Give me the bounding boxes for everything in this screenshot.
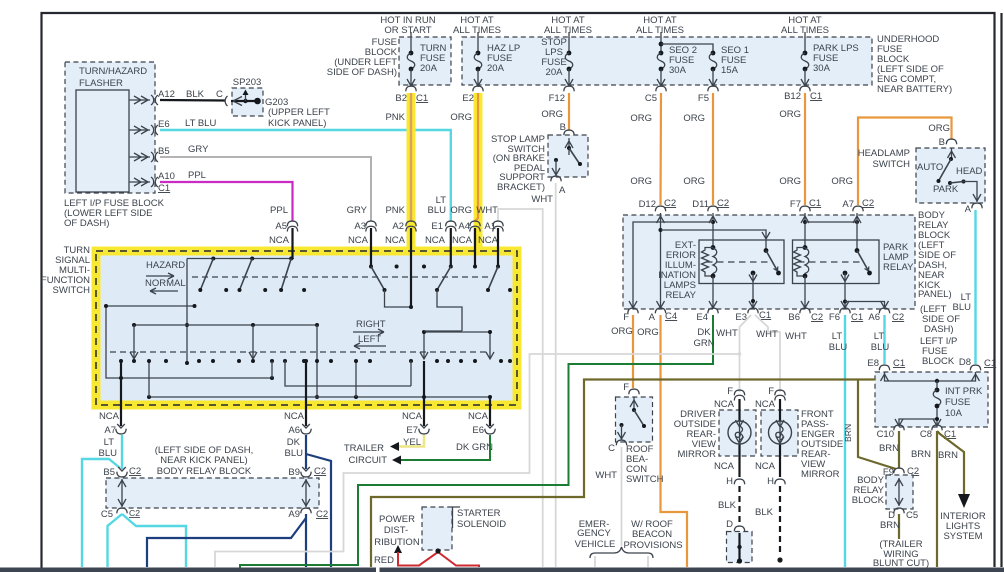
footer bar: [0, 568, 376, 572]
svg-text:E1: E1: [431, 221, 443, 232]
svg-text:NCA: NCA: [714, 399, 735, 410]
svg-text:SIDE OF DASH): SIDE OF DASH): [327, 67, 397, 78]
label TURN SIGNAL MULTI-FUNCTION SWITCH: [41, 245, 90, 296]
switch internals: contact dot row: [119, 359, 512, 363]
svg-text:B: B: [939, 137, 945, 148]
switch internals: right/left labels: [353, 319, 386, 349]
svg-text:C1: C1: [984, 358, 996, 369]
svg-text:HEADLAMP: HEADLAMP: [858, 148, 910, 159]
svg-text:PROVISIONS: PROVISIONS: [623, 540, 682, 551]
flasher inner module: [76, 90, 129, 192]
park lamp relay: [793, 240, 880, 284]
svg-text:20A: 20A: [546, 67, 564, 78]
svg-text:INT PRK: INT PRK: [945, 386, 983, 397]
svg-text:SOLENOID: SOLENOID: [457, 519, 506, 530]
connector A2 NCA: [385, 205, 416, 307]
connector D8 C1: [959, 357, 996, 370]
svg-text:E6: E6: [472, 425, 484, 436]
svg-text:WHT: WHT: [476, 205, 498, 216]
connector H passenger mirror: [755, 461, 785, 487]
connector A3 NCA: [347, 205, 377, 267]
wire DK BLU A9 down: [147, 514, 306, 567]
label HOT AT ALL TIMES (stop lps): [544, 15, 592, 36]
switch exit wire E7: [423, 361, 425, 426]
label FUSE BLOCK (UNDER LEFT SIDE OF DASH): [327, 37, 398, 78]
park lps fuse 30A: [801, 32, 859, 86]
connector A C4: [649, 308, 678, 323]
interior lights system arrow: [940, 494, 986, 542]
svg-text:C10: C10: [877, 429, 894, 440]
svg-text:BEACON: BEACON: [632, 529, 672, 540]
connector B6 C2: [788, 308, 823, 323]
splice SP203 box: [225, 77, 263, 116]
wire LT BLU A6 to E8: [871, 315, 890, 364]
svg-text:SWITCH: SWITCH: [873, 159, 911, 170]
ground G203: [265, 97, 330, 129]
label HOT IN RUN OR START: [380, 15, 435, 36]
svg-text:A: A: [965, 204, 972, 215]
wire LT BLU F6 down to bottom: [829, 315, 848, 567]
svg-text:WHT: WHT: [531, 194, 553, 205]
passenger mirror motor: [769, 399, 792, 477]
svg-text:SP203: SP203: [233, 77, 262, 88]
svg-text:NCA: NCA: [755, 399, 776, 410]
svg-text:B5: B5: [158, 146, 170, 157]
label STOP LAMP SWITCH (ON BRAKE PEDAL SUPPORT BRACKET): [491, 134, 566, 196]
underhood fuse block box: [462, 37, 872, 85]
label LEFT I/P FUSE BLOCK: [920, 336, 957, 367]
connector D driver mirror: [726, 519, 745, 531]
svg-text:NCA: NCA: [348, 235, 369, 246]
connector A headlamp: [965, 203, 983, 215]
svg-text:NCA: NCA: [452, 235, 473, 246]
svg-text:C4: C4: [665, 311, 677, 322]
svg-text:B12: B12: [784, 91, 801, 102]
svg-text:F: F: [768, 386, 774, 397]
svg-text:C1: C1: [810, 91, 822, 102]
flasher pin A12: [129, 89, 175, 105]
svg-text:OF DASH): OF DASH): [64, 218, 109, 229]
svg-text:A5: A5: [275, 221, 287, 232]
wire ORG relay A down to bottom: [637, 315, 687, 567]
wire WHT stop lamp switch A down: [531, 183, 555, 567]
svg-text:A12: A12: [158, 89, 175, 100]
stop lps fuse 20A: [541, 32, 573, 86]
wire BLK A12 to G203: [160, 89, 225, 101]
svg-text:C2: C2: [129, 508, 140, 518]
headlamp switch box: [916, 148, 985, 203]
connector A7 NCA: [99, 411, 127, 459]
svg-text:OR START: OR START: [384, 25, 431, 36]
svg-text:BRN: BRN: [880, 520, 900, 531]
switch internals: lower contact dashed row: [110, 351, 489, 353]
svg-text:E4: E4: [696, 312, 708, 323]
svg-text:DK: DK: [287, 437, 301, 448]
switch internals: link U2: [437, 290, 462, 331]
svg-text:B5: B5: [103, 467, 115, 478]
svg-text:D12: D12: [639, 199, 656, 210]
wire BRN C8 down to bottom: [936, 431, 938, 567]
wire BRN long branch to bottom left: [371, 380, 875, 568]
connector F6 C1: [829, 308, 863, 323]
body relay block (kick panel) box: [106, 478, 319, 508]
svg-text:BLU: BLU: [285, 448, 304, 459]
svg-text:A: A: [559, 185, 566, 196]
wire DK GRN relay E4 to bottom: [240, 315, 715, 568]
connector F (relay block): [623, 308, 638, 323]
wire LT BLU headlamp A to D8: [953, 210, 976, 364]
highlighted wire PNK fuse B2 to A2: [385, 93, 411, 247]
seo 2 fuse 30A: [657, 32, 697, 86]
svg-text:WHT: WHT: [595, 470, 617, 481]
svg-text:FLASHER: FLASHER: [79, 78, 123, 89]
svg-text:A4: A4: [458, 221, 470, 232]
svg-text:SYSTEM: SYSTEM: [943, 531, 982, 542]
label DRIVER OUTSIDE REAR-VIEW MIRROR: [674, 409, 716, 460]
switch internals: right mid frame: [420, 330, 494, 359]
svg-text:C2: C2: [892, 312, 904, 323]
svg-text:BRN: BRN: [879, 443, 899, 454]
driver mirror lower box: [727, 532, 753, 564]
switch internals: bottom cross links: [119, 331, 462, 386]
svg-text:A: A: [649, 312, 656, 323]
fuse block (under left side of dash) box: [399, 37, 451, 85]
turn/hazard flasher box: [65, 62, 155, 193]
svg-text:C5: C5: [906, 510, 918, 521]
flasher pin E6: [129, 119, 170, 135]
svg-text:C5: C5: [101, 509, 113, 520]
svg-text:B2: B2: [395, 93, 407, 104]
svg-text:20A: 20A: [420, 63, 438, 74]
connector E3 C1: [735, 308, 771, 323]
svg-text:E7: E7: [406, 425, 418, 436]
svg-text:C2: C2: [717, 198, 729, 209]
svg-text:WHT: WHT: [785, 331, 807, 342]
wire ORG F5 fuse to D11: [683, 93, 713, 205]
svg-text:DASH): DASH): [924, 324, 954, 335]
svg-text:C1: C1: [893, 358, 905, 369]
connector E1 NCA: [425, 195, 456, 267]
svg-text:ORG: ORG: [630, 113, 652, 124]
label EMER-GENCY VEHICLE: [575, 519, 616, 550]
svg-text:C1: C1: [158, 183, 170, 194]
svg-text:E6: E6: [158, 119, 170, 130]
passenger mirror box: [761, 410, 798, 456]
small body relay block box: [883, 466, 919, 521]
connector A9 C2: [288, 508, 328, 520]
connector F NCA driver mirror: [714, 386, 745, 410]
svg-text:BLK: BLK: [186, 89, 205, 100]
svg-text:RED: RED: [374, 555, 394, 566]
svg-text:NCA: NCA: [99, 411, 120, 422]
svg-text:MIRROR: MIRROR: [677, 449, 716, 460]
starter solenoid box: [422, 507, 506, 550]
svg-text:BLOCK: BLOCK: [852, 495, 885, 506]
svg-text:TRAILER: TRAILER: [344, 443, 384, 454]
svg-text:ORG: ORG: [779, 176, 801, 187]
svg-text:30A: 30A: [813, 63, 831, 74]
svg-text:H: H: [767, 476, 774, 487]
switch internals: hazard feed bus: [187, 257, 294, 261]
switch internals: left riser: [185, 259, 189, 366]
svg-text:NEAR KICK PANEL): NEAR KICK PANEL): [160, 455, 247, 466]
connector C5: [645, 86, 666, 104]
svg-text:SWITCH: SWITCH: [53, 285, 91, 296]
connector E7 NCA: [402, 411, 429, 448]
svg-text:BRACKET): BRACKET): [497, 182, 545, 193]
connector E2: [462, 86, 483, 104]
svg-text:A7: A7: [104, 425, 116, 436]
connector F12: [549, 86, 575, 104]
svg-text:A10: A10: [158, 171, 175, 182]
switch exit wire A7: [120, 361, 122, 426]
switch internals: blade 2: [238, 259, 268, 293]
connector B5 C2: [103, 466, 141, 478]
svg-text:A7: A7: [842, 199, 854, 210]
svg-text:(UPPER LEFT: (UPPER LEFT: [268, 107, 330, 118]
svg-text:LEFT: LEFT: [358, 334, 381, 345]
label HEADLAMP SWITCH: [858, 148, 910, 170]
label POWER DIST-RIBUTION: [374, 514, 420, 548]
svg-text:ORG: ORG: [541, 109, 563, 120]
wire PPL flasher A10 to A5: [160, 170, 293, 221]
svg-text:NCA: NCA: [402, 411, 423, 422]
switch internals: left bus: [104, 304, 197, 378]
exterior illumination lamps relay: [699, 240, 784, 284]
label UNDERHOOD FUSE BLOCK (LEFT SIDE OF ENG COMPT, NEAR BATTERY): [877, 34, 952, 95]
ext illum relay exits: [709, 284, 757, 309]
label FRONT PASS-ENGER OUTSIDE REAR-VIEW MIRROR: [801, 409, 843, 480]
svg-text:NORMAL: NORMAL: [145, 278, 186, 289]
svg-text:ALL TIMES: ALL TIMES: [636, 25, 684, 36]
connector C10: [877, 425, 905, 440]
svg-text:NCA: NCA: [385, 235, 406, 246]
svg-text:20A: 20A: [487, 63, 505, 74]
connector B headlamp: [946, 139, 956, 144]
svg-text:D11: D11: [692, 199, 709, 210]
wire BRN D blunt cut: [873, 514, 929, 569]
wire ORG relay F to roof beacon switch: [611, 315, 633, 388]
connector E8 C1: [867, 358, 905, 370]
svg-text:NCA: NCA: [755, 461, 776, 472]
svg-text:C5: C5: [645, 93, 657, 104]
svg-text:RELAY: RELAY: [666, 290, 697, 301]
svg-text:C2: C2: [664, 198, 676, 209]
svg-text:GRN: GRN: [693, 338, 714, 349]
svg-text:F: F: [623, 312, 629, 323]
svg-text:DK GRN: DK GRN: [456, 442, 493, 453]
svg-text:F7: F7: [790, 199, 801, 210]
roof beacon switch internals: [618, 397, 647, 440]
wire LT BLU C5 branches: [108, 514, 187, 567]
int prk fuse internals: [881, 372, 983, 426]
svg-text:C2: C2: [811, 312, 823, 323]
wire BLK driver mirror dashed: [718, 486, 739, 525]
roof beacon switch box: [616, 397, 653, 442]
svg-text:C8: C8: [920, 429, 932, 440]
svg-text:BLU: BLU: [428, 205, 447, 216]
connector C roof beacon: [608, 440, 627, 454]
svg-text:AUTO: AUTO: [917, 162, 943, 173]
connector E4: [696, 308, 718, 323]
svg-text:LT: LT: [104, 437, 115, 448]
wire BLK passenger mirror dashed: [755, 486, 783, 563]
wire ORG B12 fuse to F7: [779, 93, 805, 205]
connector A6 C2 (relay block): [868, 308, 904, 323]
svg-text:F6: F6: [829, 312, 840, 323]
svg-text:PNK: PNK: [385, 112, 405, 123]
connector H driver mirror: [714, 461, 745, 487]
svg-text:BRN: BRN: [911, 449, 931, 460]
svg-text:BLU: BLU: [871, 342, 890, 353]
svg-text:NCA: NCA: [478, 235, 499, 246]
connector C8 C1: [920, 425, 956, 440]
switch internals: mid drops: [130, 325, 319, 399]
svg-text:ORG: ORG: [928, 123, 950, 134]
label PARK LAMP RELAY: [883, 242, 914, 273]
svg-text:BLU: BLU: [829, 342, 848, 353]
svg-text:PPL: PPL: [270, 205, 288, 216]
svg-text:E8: E8: [867, 358, 879, 369]
wire WHT E3 to passenger mirror: [755, 315, 807, 392]
wire ORG C5 fuse to D12: [630, 93, 661, 205]
label HOT AT ALL TIMES (haz lp): [453, 15, 501, 36]
svg-text:NCA: NCA: [425, 235, 446, 246]
multifunction switch body (yellow highlighted): [96, 251, 517, 405]
svg-text:A9: A9: [288, 509, 300, 520]
brace emergency/roof beacon options: [590, 547, 653, 567]
svg-text:C: C: [216, 89, 223, 100]
flasher pin B5: [129, 146, 170, 162]
wire ORG headlamp switch B to A7: [831, 118, 951, 206]
wire WHT to A1: [498, 209, 543, 567]
svg-text:VEHICLE: VEHICLE: [575, 539, 616, 550]
wire WHT E3 to driver mirror: [716, 315, 751, 392]
svg-text:ORG: ORG: [611, 326, 633, 337]
switch internals: blade 6 (A1 feed): [473, 265, 512, 293]
svg-text:PNK: PNK: [385, 205, 405, 216]
svg-text:ORG: ORG: [637, 327, 659, 338]
svg-text:C2: C2: [314, 466, 326, 477]
svg-text:10A: 10A: [945, 408, 963, 419]
svg-text:RIBUTION: RIBUTION: [374, 537, 420, 548]
svg-text:F: F: [727, 386, 733, 397]
svg-text:DK: DK: [697, 327, 711, 338]
label BODY RELAY BLOCK (small): [852, 475, 885, 506]
svg-text:TURN/HAZARD: TURN/HAZARD: [79, 66, 147, 77]
svg-text:STARTER: STARTER: [457, 508, 501, 519]
svg-text:BRN: BRN: [843, 424, 853, 442]
switch internals: lower bus: [147, 359, 492, 399]
wire WHT roof beacon C down: [595, 447, 621, 546]
haz lp fuse 20A: [474, 32, 520, 86]
svg-text:ALL TIMES: ALL TIMES: [453, 25, 501, 36]
svg-text:RELAY: RELAY: [883, 262, 914, 273]
svg-text:ORG: ORG: [450, 205, 472, 216]
wire GRY flasher B5 to A3: [160, 144, 371, 221]
wire BRN riser to F9: [858, 380, 896, 470]
pass-through arrows in block: [118, 479, 310, 507]
svg-text:ORG: ORG: [683, 176, 705, 187]
label HOT AT ALL TIMES (park lps): [781, 15, 829, 36]
connector F7 C1: [790, 198, 821, 211]
svg-text:30A: 30A: [669, 65, 687, 76]
svg-text:B6: B6: [788, 312, 800, 323]
connector F roof beacon: [623, 382, 639, 394]
svg-text:LT: LT: [874, 331, 885, 342]
svg-text:C: C: [608, 443, 615, 454]
label ROOF BEA-CON SWITCH: [626, 444, 664, 485]
headlamp switch internals: [917, 148, 983, 202]
body relay block box: [623, 215, 915, 309]
switch exit wire E6: [489, 397, 491, 426]
connector A4 NCA: [450, 205, 480, 267]
svg-text:BLU: BLU: [953, 302, 972, 313]
svg-text:C2: C2: [862, 198, 874, 209]
adjacent page edge line: [1000, 13, 1002, 567]
svg-text:MIRROR: MIRROR: [801, 469, 840, 480]
label (LEFT SIDE OF DASH, NEAR KICK PANEL) BODY RELAY BLOCK: [155, 445, 254, 477]
svg-text:F12: F12: [549, 93, 565, 104]
connector B12 C1: [784, 86, 822, 102]
label EXT-ERIOR ILLUM-INATION LAMPS RELAY: [658, 240, 696, 301]
switch exit wire A6: [305, 361, 307, 426]
svg-text:DIST-: DIST-: [384, 525, 408, 536]
svg-text:BODY RELAY BLOCK: BODY RELAY BLOCK: [157, 466, 252, 477]
switch internals: blade 3: [279, 259, 306, 293]
connector A6 NCA: [284, 411, 311, 459]
svg-text:NEAR BATTERY): NEAR BATTERY): [877, 84, 952, 95]
svg-text:POWER: POWER: [379, 514, 415, 525]
svg-text:GRY: GRY: [188, 144, 209, 155]
seo 1 fuse 15A: [659, 42, 749, 86]
svg-text:CIRCUIT: CIRCUIT: [348, 455, 387, 466]
wire BRN C10 to F9: [879, 431, 899, 468]
svg-text:C1: C1: [809, 198, 821, 209]
wire LT BLU flasher E6 to E1: [160, 118, 451, 221]
label LEFT I/P FUSE BLOCK: [64, 198, 165, 229]
wire RED power feed: [374, 545, 479, 567]
svg-text:ALL TIMES: ALL TIMES: [544, 25, 592, 36]
svg-text:GENCY: GENCY: [577, 528, 611, 539]
svg-text:ORG: ORG: [779, 109, 801, 120]
svg-text:HEAD: HEAD: [956, 166, 983, 177]
park relay exits: [801, 284, 889, 309]
switch internals: hazard/normal labels: [145, 260, 186, 294]
svg-text:WHT: WHT: [756, 329, 778, 340]
connector D11 C2: [692, 198, 729, 211]
svg-text:SWITCH: SWITCH: [626, 474, 664, 485]
svg-text:KICK PANEL): KICK PANEL): [268, 118, 326, 129]
svg-text:15A: 15A: [721, 65, 739, 76]
svg-text:C1: C1: [851, 312, 863, 323]
connector C5 C2: [101, 508, 140, 520]
label (LEFT SIDE OF DASH): [920, 304, 960, 335]
svg-text:PPL: PPL: [188, 170, 206, 181]
svg-text:ORG: ORG: [831, 176, 853, 187]
svg-text:C2: C2: [129, 466, 141, 477]
svg-text:BLK: BLK: [755, 507, 774, 518]
connector A5 NCA: [269, 205, 298, 259]
wire DK GRN E6 to trailer circuit: [400, 435, 490, 460]
svg-text:BLK: BLK: [718, 500, 737, 511]
switch internals: blade 4 (A3 feed): [369, 265, 399, 293]
internal feeds: [657, 213, 771, 308]
svg-text:A6: A6: [868, 312, 880, 323]
wire DK BLU branch down right: [306, 454, 331, 567]
svg-text:LT BLU: LT BLU: [185, 118, 216, 129]
label HOT AT ALL TIMES (seo): [636, 15, 684, 36]
